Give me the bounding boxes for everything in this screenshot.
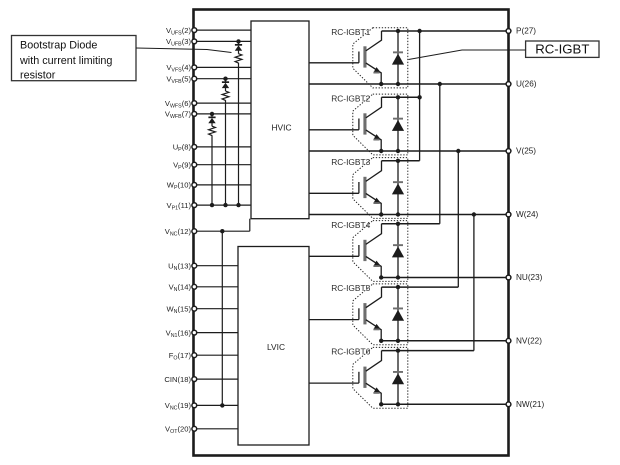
- emitter rail of RC-IGBT4: [381, 277, 508, 279]
- junction P bus at P rail: [417, 29, 421, 33]
- junction emitter 6: [379, 402, 383, 406]
- junction bootstrap 2 bottom on VP1 line: [223, 203, 227, 207]
- junction emitter 1: [379, 82, 383, 86]
- pin NU(23): [506, 275, 511, 280]
- pin NV(22): [506, 338, 511, 343]
- junction diode bottom 3: [396, 212, 400, 216]
- pin VNC(19): [192, 403, 197, 408]
- package outline: [194, 10, 509, 456]
- junction emitter 3: [379, 212, 383, 216]
- transistor Q3 (IGBT): [359, 161, 382, 215]
- svg-text:RC-IGBT2: RC-IGBT2: [331, 93, 370, 103]
- bootstrap chain 3: wire: [211, 114, 213, 205]
- svg-text:VP1(11): VP1(11): [166, 201, 191, 212]
- svg-text:RC-IGBT3: RC-IGBT3: [331, 157, 370, 167]
- pin VWFS(6): [192, 101, 197, 106]
- junction bootstrap 1 top: [236, 39, 240, 43]
- wire pin 15 to IC: [196, 308, 238, 310]
- transistor Q4 (IGBT): [359, 224, 382, 278]
- RC-IGBT4 dotted outline: [353, 221, 408, 282]
- pin VNC(12): [192, 229, 197, 234]
- wire gate of RC-IGBT4 from IC: [309, 255, 359, 257]
- wire pin 19 to IC: [196, 404, 238, 406]
- pin VWFB(7): [192, 112, 197, 117]
- wire pin 17 to IC: [196, 354, 238, 356]
- pin VN1(16): [192, 330, 197, 335]
- wire pin 11 to IC: [196, 204, 251, 206]
- junction diode top 1: [396, 29, 400, 33]
- transistor Q5 (IGBT): [359, 287, 382, 341]
- wire pin 8 to IC: [196, 146, 251, 148]
- emitter rail of RC-IGBT6: [381, 403, 508, 405]
- pin VVFS(4): [192, 65, 197, 70]
- bootstrap diode D2: [222, 81, 229, 88]
- junction VNC at pin 19 line: [220, 403, 224, 407]
- net VNC vertical pin12 to pin19: [221, 231, 223, 405]
- svg-text:with current limiting: with current limiting: [19, 55, 112, 67]
- P bus wire: [419, 31, 421, 161]
- junction U bus at U rail: [438, 82, 442, 86]
- svg-text:RC-IGBT4: RC-IGBT4: [331, 220, 370, 230]
- svg-text:NV(22): NV(22): [516, 336, 542, 345]
- pin VOT(20): [192, 426, 197, 431]
- collector rail of RC-IGBT3: [382, 160, 420, 162]
- current limiting resistor R2: [222, 91, 229, 100]
- collector rail of RC-IGBT6: [382, 350, 474, 352]
- junction diode top 2: [396, 95, 400, 99]
- svg-text:NW(21): NW(21): [516, 400, 544, 409]
- bootstrap diode D3: [208, 117, 215, 124]
- bootstrap chain 2: wire: [225, 79, 227, 205]
- wire pin 3 to IC: [196, 40, 251, 42]
- svg-text:VN1(16): VN1(16): [166, 328, 192, 339]
- junction diode top 4: [396, 222, 400, 226]
- collector rail of RC-IGBT5: [382, 286, 459, 288]
- pin VN(14): [192, 284, 197, 289]
- pin U(26): [506, 82, 511, 87]
- svg-text:HVIC: HVIC: [271, 123, 291, 133]
- freewheel diode of RC-IGBT1: [392, 31, 404, 84]
- junction diode top 5: [396, 285, 400, 289]
- HVIC U1: [251, 21, 309, 219]
- junction W bus at W rail: [472, 212, 476, 216]
- svg-text:RC-IGBT5: RC-IGBT5: [331, 283, 370, 293]
- pin VUFS(2): [192, 28, 197, 33]
- wire pin 9 to IC: [196, 164, 251, 166]
- emitter rail of RC-IGBT1: [309, 83, 509, 85]
- U bus wire: [439, 84, 441, 224]
- wire gate of RC-IGBT1 from IC: [309, 62, 359, 64]
- svg-text:W(24): W(24): [516, 210, 539, 219]
- junction VNC at pin 12 line: [220, 229, 224, 233]
- transistor Q6 (IGBT): [359, 351, 382, 405]
- svg-text:RC-IGBT1: RC-IGBT1: [331, 27, 370, 37]
- pin WN(15): [192, 306, 197, 311]
- junction emitter 4: [379, 275, 383, 279]
- wire pin 5 to IC: [196, 78, 251, 80]
- svg-text:NU(23): NU(23): [516, 273, 543, 282]
- pin V(25): [506, 149, 511, 154]
- emitter rail of RC-IGBT3: [309, 214, 509, 216]
- bootstrap diode D1: [235, 44, 242, 51]
- svg-text:CIN(18): CIN(18): [164, 375, 191, 384]
- wire gate of RC-IGBT6 from IC: [309, 382, 359, 384]
- W bus wire: [473, 215, 475, 351]
- wire pin 7 to IC: [196, 113, 251, 115]
- junction bootstrap 1 bottom on VP1 line: [236, 203, 240, 207]
- pin VUFB(3): [192, 39, 197, 44]
- wire pin 4 to IC: [196, 66, 251, 68]
- RC-IGBT5 dotted outline: [353, 284, 408, 345]
- junction P bus at RC-IGBT2 collector: [417, 95, 421, 99]
- RC-IGBT6 dotted outline: [353, 347, 408, 408]
- RC-IGBT2 dotted outline: [353, 94, 408, 155]
- pin WP(10): [192, 183, 197, 188]
- wire pin 18 to IC: [196, 378, 238, 380]
- current limiting resistor R3: [209, 126, 216, 135]
- junction diode bottom 4: [396, 275, 400, 279]
- junction diode bottom 6: [396, 402, 400, 406]
- transistor Q2 (IGBT): [359, 97, 382, 151]
- wire pin 6 to IC: [196, 102, 251, 104]
- emitter rail of RC-IGBT2: [309, 150, 509, 152]
- bootstrap chain 1: wire: [238, 41, 240, 205]
- svg-text:LVIC: LVIC: [267, 342, 285, 352]
- junction emitter 2: [379, 149, 383, 153]
- svg-text:resistor: resistor: [20, 70, 56, 82]
- freewheel diode of RC-IGBT2: [392, 97, 404, 151]
- wire pin 12 up to HVIC bottom: [249, 219, 251, 232]
- RC-IGBT1 dotted outline: [353, 28, 408, 88]
- callout box: Bootstrap Diode with current limiting resistor: [12, 36, 137, 82]
- wire gate of RC-IGBT2 from IC: [309, 129, 359, 131]
- freewheel diode of RC-IGBT6: [392, 351, 404, 405]
- pin VVFB(5): [192, 76, 197, 81]
- junction diode top 6: [396, 348, 400, 352]
- svg-text:P(27): P(27): [516, 27, 536, 36]
- pin CIN(18): [192, 377, 197, 382]
- junction bootstrap 3 top: [210, 112, 214, 116]
- wire pin 20 to IC: [196, 428, 238, 430]
- svg-text:U(26): U(26): [516, 80, 537, 89]
- junction bootstrap 2 top: [223, 77, 227, 81]
- leader line bootstrap callout: [136, 48, 232, 53]
- V bus wire: [457, 151, 459, 287]
- svg-text:RC-IGBT: RC-IGBT: [535, 42, 589, 57]
- leader line RC-IGBT callout: [409, 50, 526, 60]
- junction V bus at V rail: [456, 149, 460, 153]
- pin W(24): [506, 212, 511, 217]
- pin UP(8): [192, 145, 197, 150]
- freewheel diode of RC-IGBT5: [392, 287, 404, 341]
- wire pin 10 to IC: [196, 184, 251, 186]
- wire pin 13 to IC: [196, 265, 238, 267]
- pin P(27): [506, 29, 511, 34]
- junction diode bottom 1: [396, 82, 400, 86]
- svg-text:V(25): V(25): [516, 147, 536, 156]
- junction bootstrap 3 bottom on VP1 line: [210, 203, 214, 207]
- emitter rail of RC-IGBT5: [381, 340, 508, 342]
- wire pin 14 to IC: [196, 286, 238, 288]
- junction diode bottom 2: [396, 149, 400, 153]
- wire pin 12 to IC: [196, 230, 250, 232]
- LVIC U2: [238, 247, 309, 446]
- collector rail of RC-IGBT4: [382, 223, 440, 225]
- collector rail of RC-IGBT2: [382, 96, 420, 98]
- pin NW(21): [506, 402, 511, 407]
- pin UN(13): [192, 263, 197, 268]
- pin VP1(11): [192, 203, 197, 208]
- freewheel diode of RC-IGBT4: [392, 224, 404, 278]
- svg-text:Bootstrap Diode: Bootstrap Diode: [20, 40, 97, 52]
- collector rail of RC-IGBT1: [382, 30, 509, 32]
- current limiting resistor R1: [235, 54, 242, 63]
- pin VP(9): [192, 162, 197, 167]
- callout box: RC-IGBT: [526, 41, 599, 57]
- wire pin 16 to IC: [196, 332, 238, 334]
- transistor Q1 (IGBT): [359, 31, 382, 84]
- junction diode top 3: [396, 159, 400, 163]
- junction emitter 5: [379, 339, 383, 343]
- junction diode bottom 5: [396, 339, 400, 343]
- svg-text:RC-IGBT6: RC-IGBT6: [331, 347, 370, 357]
- RC-IGBT3 dotted outline: [353, 158, 408, 219]
- wire pin 2 to IC: [196, 29, 251, 31]
- wire gate of RC-IGBT5 from IC: [309, 319, 359, 321]
- pin FO(17): [192, 353, 197, 358]
- freewheel diode of RC-IGBT3: [392, 161, 404, 215]
- wire gate of RC-IGBT3 from IC: [309, 192, 359, 194]
